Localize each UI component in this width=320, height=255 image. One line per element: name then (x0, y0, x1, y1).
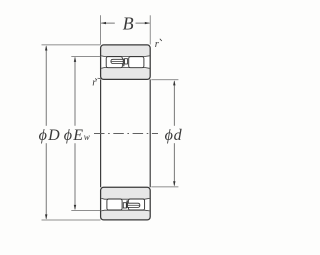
phiD extension line top (42, 44, 101, 46)
B extension line left (100, 15, 102, 44)
lower raceway band (white) (101, 198, 149, 211)
lower bearing section body (101, 187, 151, 220)
phid extension line top (151, 79, 178, 81)
B arrow right (145, 22, 150, 24)
svg-text:ϕD: ϕD (39, 127, 61, 144)
upper inner raceway line (101, 67, 149, 70)
upper left roller (106, 57, 122, 68)
cage rivet pin (upper) (111, 59, 123, 63)
lower inner raceway line (101, 197, 149, 200)
phid dimension line upper segment (173, 81, 175, 126)
cage section mark (upper, dark) (122, 64, 123, 67)
B dimension line right segment (136, 22, 150, 24)
phiD arrow up (45, 45, 47, 50)
phid dimension line lower segment (173, 143, 175, 185)
svg-text:ϕE: ϕE (64, 127, 84, 144)
cage centre web (upper) (125, 59, 128, 64)
phid extension line bottom (151, 186, 178, 188)
phiD extension line bottom (42, 219, 101, 221)
upper outer raceway line (101, 55, 149, 58)
upper raceway band (white) (101, 56, 149, 69)
B dimension line left segment (101, 22, 115, 24)
rivet head (upper, dark) (123, 59, 124, 67)
bore silhouette line right (149, 79, 151, 187)
svg-text:ϕd: ϕd (165, 127, 183, 144)
lower rollers and cage (rotated copy) (107, 199, 145, 210)
phid arrow up (173, 80, 175, 85)
lower section outline (101, 187, 151, 220)
phiD arrow down (45, 214, 47, 219)
phiEw dimension line upper segment (74, 58, 76, 126)
phiEw arrow up (74, 57, 76, 62)
upper right roller (129, 57, 144, 68)
lower outer raceway line (101, 209, 149, 212)
upper section outline (101, 45, 151, 80)
svg-text:B: B (123, 14, 134, 34)
r-prime tick top right (160, 39, 162, 41)
upper bearing section body (101, 45, 151, 80)
r tick left (95, 78, 97, 80)
phiEw arrow down (74, 205, 76, 210)
phiD dimension line lower segment (45, 143, 47, 219)
phiEw extension line bottom (71, 209, 100, 211)
B arrow left (101, 22, 106, 24)
bore silhouette line left (100, 79, 102, 187)
svg-text:w: w (84, 132, 90, 142)
centerline (94, 133, 158, 135)
r leader left (98, 77, 101, 79)
phid arrow down (173, 181, 175, 186)
phiEw extension line top (71, 55, 100, 57)
B extension line right (149, 15, 151, 44)
phiEw dimension line lower segment (74, 143, 76, 209)
phiD dimension line upper segment (45, 46, 47, 126)
rivet pin midline (upper) (111, 60, 123, 62)
